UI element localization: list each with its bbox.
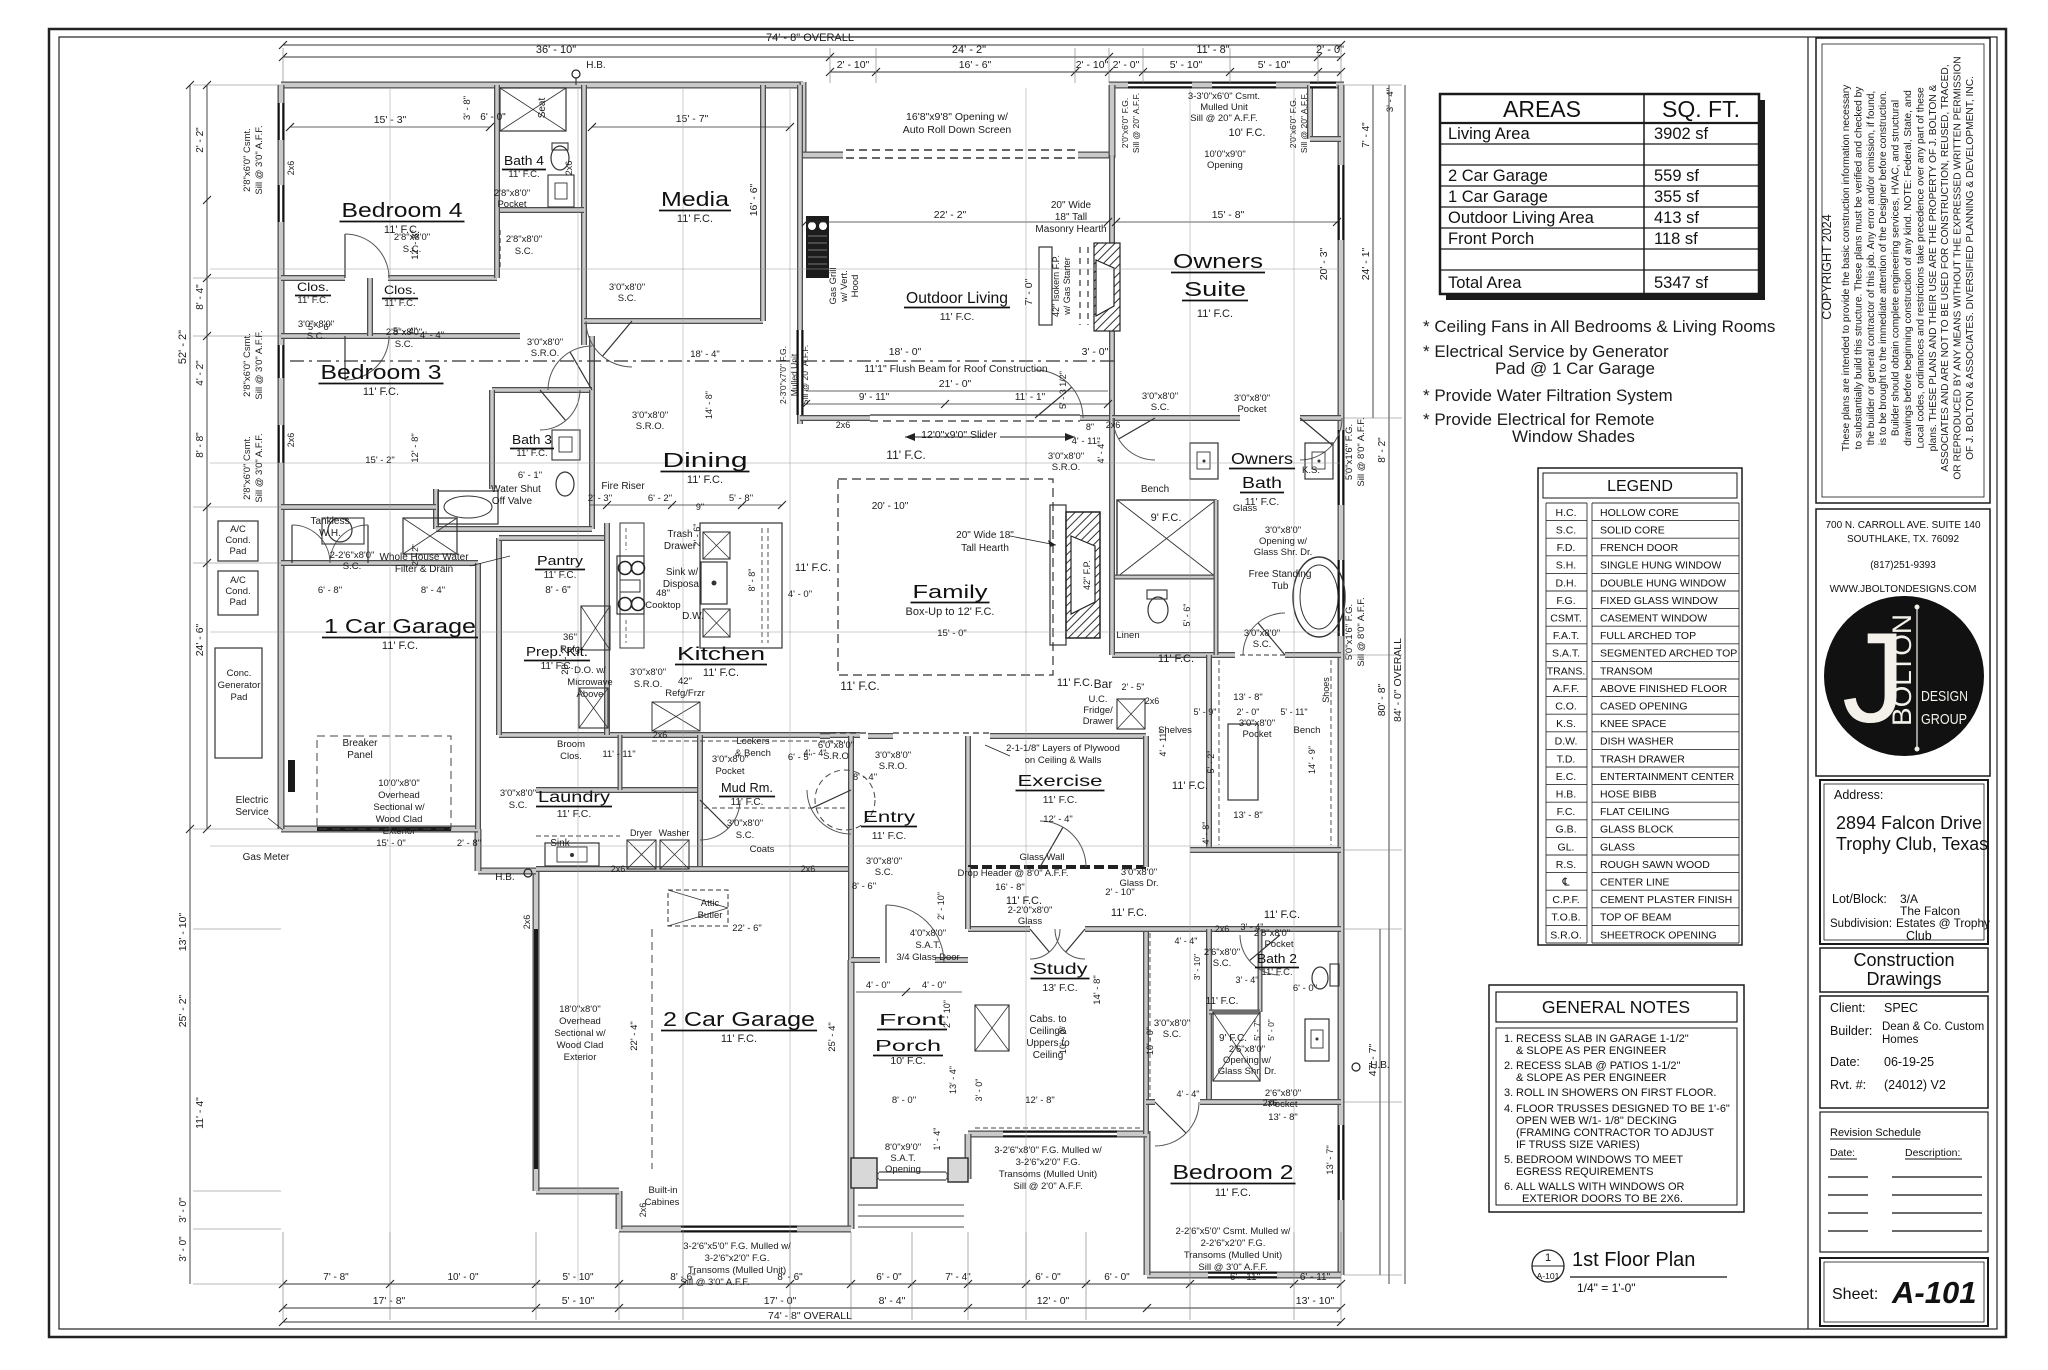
kitchen dashed uppers: [652, 740, 845, 742]
svg-text:Sheet:: Sheet:: [1832, 1286, 1878, 1303]
wall: exercise east: [1143, 736, 1149, 867]
svg-text:CASED OPENING: CASED OPENING: [1600, 701, 1688, 713]
svg-text:22' - 2": 22' - 2": [934, 209, 967, 221]
svg-text:3-2'6"x5'0" F.G. Mulled w/: 3-2'6"x5'0" F.G. Mulled w/: [683, 1241, 791, 1252]
svg-text:OPEN WEB W/1- 1/8" DECKING: OPEN WEB W/1- 1/8" DECKING: [1516, 1115, 1677, 1127]
dim: 22-2 outdoor: [806, 221, 1108, 223]
svg-text:Broom: Broom: [557, 739, 585, 750]
fixture: bath3 toilet: [556, 472, 574, 496]
svg-text:Exterior: Exterior: [564, 1052, 597, 1063]
svg-text:A/C: A/C: [230, 524, 246, 535]
window: garage bottom: [681, 1226, 797, 1233]
svg-text:Mulled Unit: Mulled Unit: [789, 353, 799, 396]
svg-text:Pad: Pad: [230, 597, 247, 608]
svg-text:22' - 6": 22' - 6": [732, 923, 761, 934]
svg-text:Transoms (Mulled Unit): Transoms (Mulled Unit): [1184, 1250, 1282, 1261]
svg-text:Sill @ 20" A.F.F.: Sill @ 20" A.F.F.: [1131, 93, 1141, 153]
exterior wall: bedroom2 bottom: [1147, 1272, 1341, 1279]
svg-text:Sill @ 20" A.F.F.: Sill @ 20" A.F.F.: [1299, 93, 1309, 153]
construction drawings box: [1820, 948, 1988, 992]
svg-text:COPYRIGHT 2024: COPYRIGHT 2024: [1820, 214, 1834, 319]
svg-text:Transoms (Mulled Unit): Transoms (Mulled Unit): [688, 1265, 786, 1276]
exterior wall: garage bottom step: [616, 1191, 623, 1229]
1st floor plan title: [1532, 1250, 1564, 1282]
svg-text:Sectional w/: Sectional w/: [373, 802, 425, 813]
title column separator: [1807, 37, 1809, 1329]
svg-text:Club: Club: [1906, 929, 1932, 943]
svg-text:3'0"x8'0": 3'0"x8'0": [527, 337, 563, 348]
svg-text:5' - 9": 5' - 9": [1194, 707, 1217, 717]
window: media wall west of outdoor living: [797, 330, 804, 415]
svg-text:Pad: Pad: [231, 692, 248, 703]
svg-text:4.: 4.: [1504, 1103, 1513, 1115]
svg-text:SEGMENTED ARCHED TOP: SEGMENTED ARCHED TOP: [1600, 648, 1737, 660]
top extension lines: [282, 48, 284, 83]
svg-text:* Provide Water Filtration Sys: * Provide Water Filtration System: [1423, 386, 1673, 405]
svg-text:drawings before beginning cons: drawings before beginning construction o…: [1903, 90, 1914, 446]
svg-text:Sink w/: Sink w/: [666, 567, 698, 578]
window: bedroom4 left x2: [278, 103, 285, 140]
svg-text:w/ Vert.: w/ Vert.: [839, 270, 850, 303]
svg-text:11' F.C.: 11' F.C.: [544, 570, 577, 581]
door: wh room double doors: [291, 525, 293, 563]
svg-text:on Ceiling & Walls: on Ceiling & Walls: [1025, 755, 1102, 766]
svg-text:Bath 2: Bath 2: [1257, 951, 1297, 966]
wall: 1-car garage right: [475, 563, 481, 829]
wall: hall/entry west: [848, 736, 854, 960]
fixture: bath2 vanity: [1305, 1019, 1329, 1061]
svg-text:CENTER LINE: CENTER LINE: [1600, 877, 1669, 889]
svg-text:80' - 8": 80' - 8": [1376, 683, 1388, 716]
svg-text:Service: Service: [235, 807, 269, 818]
svg-text:12' - 0": 12' - 0": [1037, 1295, 1070, 1307]
wall: broom closet: [618, 735, 623, 790]
svg-text:is to be brought to the immedi: is to be brought to the immediate attent…: [1878, 91, 1889, 446]
svg-text:GL.: GL.: [1558, 841, 1575, 853]
exterior wall: study bottom: [968, 1131, 1147, 1138]
J Bolton logo: [1824, 596, 1984, 756]
svg-text:Filter & Drain: Filter & Drain: [395, 564, 453, 575]
exterior wall: garage east/porch join: [848, 1176, 855, 1229]
svg-text:2' - 10": 2' - 10": [1105, 887, 1134, 898]
exterior wall: 1-car garage bottom: [281, 826, 478, 833]
dim: 21-0 row: [806, 390, 1108, 392]
svg-text:Builder should obtain complete: Builder should obtain complete engineeri…: [1891, 100, 1902, 436]
svg-text:3' - 10": 3' - 10": [1192, 954, 1202, 980]
wall: owners suite west: [1109, 155, 1115, 418]
svg-text:DOUBLE HUNG WINDOW: DOUBLE HUNG WINDOW: [1600, 577, 1726, 589]
svg-text:SINGLE HUNG WINDOW: SINGLE HUNG WINDOW: [1600, 560, 1721, 572]
svg-text:2' - 10": 2' - 10": [936, 892, 946, 920]
svg-text:S.C.: S.C.: [515, 246, 533, 257]
svg-text:3-2'6"x2'0" F.G.: 3-2'6"x2'0" F.G.: [705, 1253, 770, 1264]
door: owners suite entry: [1035, 387, 1072, 418]
svg-text:S.C.: S.C.: [395, 339, 413, 350]
svg-text:Electric: Electric: [236, 795, 269, 806]
svg-text:Builder:: Builder:: [1830, 1024, 1872, 1038]
svg-text:Sink: Sink: [550, 838, 570, 849]
svg-text:2' - 10": 2' - 10": [837, 59, 870, 71]
svg-text:Tall Hearth: Tall Hearth: [961, 543, 1009, 554]
svg-text:5'0"x1'6" F.G.: 5'0"x1'6" F.G.: [1344, 604, 1355, 660]
svg-text:Conc.: Conc.: [227, 668, 252, 679]
svg-text:5' - 10": 5' - 10": [1258, 59, 1291, 71]
svg-text:25' - 4": 25' - 4": [827, 1022, 838, 1051]
svg-text:Dryer: Dryer: [630, 828, 652, 838]
svg-text:11' F.C.: 11' F.C.: [795, 562, 831, 574]
svg-text:11' F.C.: 11' F.C.: [687, 474, 723, 486]
svg-text:Tub: Tub: [1272, 581, 1289, 592]
svg-text:Overhead: Overhead: [559, 1016, 601, 1027]
svg-text:Revision Schedule: Revision Schedule: [1830, 1127, 1921, 1139]
svg-text:SPEC: SPEC: [1884, 1001, 1918, 1015]
svg-text:H.B.: H.B.: [1370, 1060, 1389, 1071]
svg-text:9' - 11": 9' - 11": [859, 392, 890, 403]
svg-text:2' - 2": 2' - 2": [195, 127, 206, 153]
svg-text:F.C.: F.C.: [1557, 806, 1576, 818]
wall: owners closet west: [1206, 655, 1212, 850]
door: glass dr exercise: [1040, 827, 1063, 867]
svg-text:Total Area: Total Area: [1448, 274, 1522, 292]
svg-text:12' - 8": 12' - 8": [410, 433, 421, 462]
svg-text:Pantry: Pantry: [537, 553, 584, 568]
svg-text:2x6: 2x6: [286, 433, 296, 448]
svg-text:F.A.T.: F.A.T.: [1553, 630, 1579, 642]
svg-text:3'0"x8'0": 3'0"x8'0": [1121, 867, 1157, 878]
svg-text:Mud Rm.: Mud Rm.: [721, 780, 773, 795]
svg-text:A/C: A/C: [230, 575, 246, 586]
svg-text:559 sf: 559 sf: [1654, 167, 1699, 185]
svg-text:6.: 6.: [1504, 1181, 1513, 1193]
wall: media right: [760, 85, 766, 321]
svg-text:7' - 4": 7' - 4": [1361, 122, 1372, 148]
svg-text:12'0"x9'0" Slider: 12'0"x9'0" Slider: [921, 429, 997, 441]
svg-text:S.C.: S.C.: [875, 867, 893, 878]
svg-text:11' F.C.: 11' F.C.: [508, 169, 539, 180]
svg-text:K.S.: K.S.: [1556, 718, 1576, 730]
svg-text:2-1-1/8" Layers of Plywood: 2-1-1/8" Layers of Plywood: [1006, 743, 1120, 754]
wall: study top: [968, 926, 1030, 932]
svg-text:18" Tall: 18" Tall: [1055, 212, 1087, 223]
svg-text:S.C.: S.C.: [343, 561, 361, 572]
dim: 15-7 media: [592, 126, 790, 128]
svg-text:14' - 8": 14' - 8": [704, 391, 714, 419]
svg-text:Wood Clad: Wood Clad: [376, 814, 423, 825]
svg-text:2.: 2.: [1504, 1060, 1513, 1072]
svg-text:AREAS: AREAS: [1503, 96, 1581, 122]
right dim column: [1388, 85, 1390, 1284]
bottom dim row3 overall: [283, 1321, 1341, 1323]
svg-text:Front Porch: Front Porch: [1448, 230, 1534, 248]
svg-text:S.R.O.: S.R.O.: [879, 761, 908, 772]
svg-text:5' - 6": 5' - 6": [1182, 604, 1192, 627]
svg-text:Free Standing: Free Standing: [1249, 569, 1312, 580]
svg-text:Estates @ Trophy: Estates @ Trophy: [1896, 916, 1990, 930]
svg-text:3'0"x8'0": 3'0"x8'0": [1142, 391, 1178, 402]
svg-text:Panel: Panel: [347, 750, 373, 761]
svg-text:20' - 3": 20' - 3": [1318, 247, 1330, 280]
client box: [1820, 996, 1988, 1108]
wall: exercise glass south: [968, 865, 1146, 869]
svg-text:FULL ARCHED TOP: FULL ARCHED TOP: [1600, 630, 1696, 642]
svg-text:Bath 3: Bath 3: [512, 432, 552, 447]
svg-text:OR REPRODUCED BY ANY MEANS WIT: OR REPRODUCED BY ANY MEANS WITHOUT THE E…: [1953, 56, 1964, 479]
svg-text:Rvt. #:: Rvt. #:: [1830, 1078, 1866, 1092]
svg-text:2x6: 2x6: [611, 864, 626, 874]
svg-text:11' F.C.: 11' F.C.: [1111, 907, 1147, 919]
svg-text:3'0"x8'0": 3'0"x8'0": [1265, 525, 1301, 536]
wall: bath3 walls: [492, 387, 592, 393]
svg-text:Microwave: Microwave: [567, 677, 612, 688]
fixture: bath3 tub: [438, 491, 498, 524]
fixture: dryer washer: [627, 840, 656, 869]
wall: study east/exercise hall: [965, 867, 971, 929]
wall: exercise west: [965, 736, 971, 867]
door: bath2 door: [1249, 935, 1280, 961]
svg-text:OF J. BOLTON & ASSOCIATES. DIV: OF J. BOLTON & ASSOCIATES. DIVERSIFIED P…: [1965, 76, 1976, 460]
svg-text:16' - 6": 16' - 6": [959, 59, 992, 71]
svg-text:3/4 Glass Door: 3/4 Glass Door: [896, 952, 959, 963]
svg-text:11' F.C.: 11' F.C.: [731, 797, 764, 808]
svg-text:Mulled Unit: Mulled Unit: [1200, 102, 1248, 113]
svg-text:2x6: 2x6: [1145, 696, 1160, 706]
svg-text:& SLOPE AS PER ENGINEER: & SLOPE AS PER ENGINEER: [1516, 1072, 1666, 1084]
wall: pantry/prep west: [496, 538, 502, 735]
window: owners suite right: [1338, 165, 1345, 240]
svg-text:5347 sf: 5347 sf: [1654, 274, 1709, 292]
fixture: fridge 36: [581, 606, 610, 650]
svg-text:Pocket: Pocket: [1264, 939, 1293, 950]
svg-text:S.C.: S.C.: [1151, 402, 1169, 413]
door: hall to bed wing: [570, 352, 592, 390]
svg-text:1/4" = 1'-0": 1/4" = 1'-0": [1577, 1281, 1636, 1295]
svg-text:2x6: 2x6: [1215, 924, 1230, 934]
svg-text:WWW.JBOLTONDESIGNS.COM: WWW.JBOLTONDESIGNS.COM: [1830, 584, 1977, 595]
svg-text:42" F.P.: 42" F.P.: [1082, 560, 1092, 590]
svg-text:4' - 0": 4' - 0": [922, 980, 946, 991]
svg-text:2' - 0": 2' - 0": [1316, 44, 1344, 56]
svg-text:TRASH DRAWER: TRASH DRAWER: [1600, 753, 1685, 765]
svg-text:D.H.: D.H.: [1556, 577, 1577, 589]
svg-text:S.C.: S.C.: [1556, 525, 1576, 537]
svg-text:S.R.O: S.R.O: [823, 751, 849, 762]
svg-text:Lockers: Lockers: [736, 736, 770, 747]
svg-text:2 Car Garage: 2 Car Garage: [1448, 167, 1548, 185]
svg-text:5'0"x1'6" F.G.: 5'0"x1'6" F.G.: [1344, 424, 1355, 480]
wall: bath4 right / media left: [581, 85, 587, 345]
svg-text:3' - 0": 3' - 0": [178, 1236, 189, 1262]
svg-text:Pocket: Pocket: [1268, 1099, 1297, 1110]
svg-text:Pocket: Pocket: [497, 199, 526, 210]
wall: bath2 partition: [1206, 929, 1212, 1102]
svg-text:ALL WALLS WITH WINDOWS OR: ALL WALLS WITH WINDOWS OR: [1516, 1181, 1685, 1193]
svg-text:FIXED GLASS WINDOW: FIXED GLASS WINDOW: [1600, 595, 1718, 607]
svg-text:Bath 4: Bath 4: [504, 153, 544, 168]
svg-text:13' - 4": 13' - 4": [948, 1066, 958, 1094]
svg-text:11'1" Flush Beam for Roof Cons: 11'1" Flush Beam for Roof Construction: [864, 363, 1048, 375]
window: owners bath right windows: [1338, 430, 1345, 505]
svg-text:7' - 0": 7' - 0": [1023, 278, 1035, 305]
svg-text:5' - 10": 5' - 10": [1170, 59, 1203, 71]
svg-text:DISH WASHER: DISH WASHER: [1600, 736, 1674, 748]
svg-text:H.B.: H.B.: [495, 872, 514, 883]
svg-text:2'6"x8'0": 2'6"x8'0": [1229, 1044, 1265, 1055]
wall: mud west: [697, 735, 703, 869]
fixture: kitchen sink: [701, 562, 727, 604]
svg-text:5.: 5.: [1504, 1154, 1513, 1166]
svg-text:11' F.C.: 11' F.C.: [557, 808, 592, 820]
svg-text:3'0"x8'0": 3'0"x8'0": [712, 754, 748, 765]
exterior wall: right: [1338, 85, 1345, 1275]
svg-text:These plans are intended to pr: These plans are intended to provide the …: [1841, 84, 1852, 451]
svg-text:Sill @ 3'0" A.F.F.: Sill @ 3'0" A.F.F.: [254, 433, 265, 502]
svg-text:Fridge/: Fridge/: [1083, 705, 1113, 716]
svg-text:1' - 4": 1' - 4": [932, 1128, 942, 1151]
svg-text:Laundry: Laundry: [538, 789, 610, 806]
svg-text:CSMT.: CSMT.: [1550, 613, 1582, 625]
svg-text:21' - 0": 21' - 0": [939, 378, 972, 390]
svg-text:4' - 4": 4' - 4": [804, 748, 827, 758]
svg-text:1: 1: [1545, 1252, 1551, 1264]
svg-text:Built-in: Built-in: [648, 1185, 677, 1196]
svg-text:ROLL IN SHOWERS ON FIRST FLOOR: ROLL IN SHOWERS ON FIRST FLOOR.: [1516, 1087, 1716, 1099]
svg-text:3'0"x8'0": 3'0"x8'0": [1234, 393, 1270, 404]
svg-text:Sill @ 20" A.F.F.: Sill @ 20" A.F.F.: [1190, 113, 1257, 124]
GENERAL NOTES box: [1489, 985, 1744, 1212]
wall: entry/exercise north (family south): [820, 733, 830, 739]
svg-text:Date:: Date:: [1830, 1055, 1860, 1069]
svg-text:TRANS.: TRANS.: [1547, 665, 1586, 677]
svg-text:Trophy Club, Texas: Trophy Club, Texas: [1836, 834, 1988, 854]
svg-text:U.C.: U.C.: [1089, 694, 1108, 705]
fixture: wh shower: [403, 518, 457, 554]
svg-text:8'0"x9'0": 8'0"x9'0": [885, 1142, 921, 1153]
door: laundry: [811, 790, 851, 809]
svg-text:6' - 0": 6' - 0": [1104, 1272, 1130, 1283]
wall: bath2 block top: [1146, 926, 1341, 932]
fixture: AC pads: [218, 521, 258, 561]
H.B. hose bibb top: [572, 70, 580, 78]
svg-text:17' - 8": 17' - 8": [373, 1295, 406, 1307]
svg-text:10' F.C.: 10' F.C.: [1229, 127, 1266, 139]
svg-text:Bench: Bench: [1294, 725, 1321, 736]
svg-text:KNEE SPACE: KNEE SPACE: [1600, 718, 1666, 730]
svg-text:2x6: 2x6: [286, 161, 296, 176]
window: bedroom3 left x2: [278, 345, 285, 378]
svg-text:15' - 7": 15' - 7": [676, 113, 709, 125]
svg-text:4' - 11": 4' - 11": [1158, 729, 1168, 756]
svg-text:Drawings: Drawings: [1866, 969, 1941, 989]
fixture: attic butler: [668, 890, 728, 926]
garage overhead door (2 car): [533, 926, 540, 1191]
exterior wall: outdoor living top blocks: [800, 82, 807, 158]
fixture: cooktop: [617, 556, 644, 614]
svg-text:22' - 4": 22' - 4": [629, 1021, 640, 1050]
svg-text:Hood: Hood: [850, 275, 861, 298]
svg-text:FLOOR TRUSSES DESIGNED TO BE 1: FLOOR TRUSSES DESIGNED TO BE 1'-6": [1516, 1103, 1730, 1115]
svg-text:Attic: Attic: [701, 898, 720, 909]
svg-text:Drop Header @ 8'0" A.F.F.: Drop Header @ 8'0" A.F.F.: [958, 868, 1069, 879]
svg-text:TOP OF BEAM: TOP OF BEAM: [1600, 912, 1671, 924]
svg-text:3-3'0"x6'0" Csmt.: 3-3'0"x6'0" Csmt.: [1188, 91, 1260, 102]
long crossing extension lines: [389, 88, 391, 1281]
svg-text:H.B.: H.B.: [1556, 789, 1576, 801]
door: bedroom3: [344, 336, 346, 380]
svg-text:2'8"x8'0": 2'8"x8'0": [506, 234, 542, 245]
svg-text:Cond.: Cond.: [225, 586, 250, 597]
svg-text:16' - 8": 16' - 8": [995, 882, 1024, 893]
svg-text:S.C.: S.C.: [618, 293, 636, 304]
svg-text:2'6"x8'0": 2'6"x8'0": [1204, 947, 1240, 958]
svg-text:Sill @ 3'0" A.F.F.: Sill @ 3'0" A.F.F.: [254, 125, 265, 194]
svg-text:Exercise: Exercise: [1018, 773, 1103, 790]
svg-text:12' - 8": 12' - 8": [410, 230, 421, 259]
svg-text:SHEETROCK OPENING: SHEETROCK OPENING: [1600, 929, 1717, 941]
svg-text:2' - 0": 2' - 0": [1237, 707, 1260, 717]
svg-text:* Ceiling Fans in All Bedrooms: * Ceiling Fans in All Bedrooms & Living …: [1423, 317, 1775, 336]
window: bedroom2 bottom: [1208, 1272, 1277, 1279]
svg-text:Bath: Bath: [1242, 475, 1282, 492]
svg-text:BOLTON: BOLTON: [1887, 614, 1917, 726]
exterior wall: porch bottom: [851, 1173, 879, 1180]
svg-text:15' - 8": 15' - 8": [1212, 209, 1245, 221]
svg-text:CASEMENT WINDOW: CASEMENT WINDOW: [1600, 613, 1707, 625]
svg-text:4' - 8": 4' - 8": [1201, 822, 1211, 845]
svg-text:W.H.: W.H.: [319, 528, 341, 539]
svg-text:Dining: Dining: [663, 450, 748, 472]
svg-text:7' - 8": 7' - 8": [323, 1272, 349, 1283]
svg-text:D.O. w/: D.O. w/: [574, 665, 606, 676]
svg-text:10'0"x8'0": 10'0"x8'0": [378, 778, 420, 789]
copyright box: [1816, 38, 1990, 503]
fixture: 42 refg/frzr: [652, 702, 700, 731]
svg-text:84' - 0" OVERALL: 84' - 0" OVERALL: [1392, 638, 1404, 722]
fixture: study cabinets: [975, 1005, 1009, 1051]
svg-text:11' F.C.: 11' F.C.: [382, 640, 418, 652]
svg-text:Clos.: Clos.: [297, 280, 329, 294]
owners closet dashed shelves: [1218, 660, 1220, 845]
svg-text:GENERAL NOTES: GENERAL NOTES: [1542, 997, 1690, 1017]
svg-text:11' - 8": 11' - 8": [1196, 44, 1229, 56]
wall: closets bottom / bedroom3 top: [281, 333, 520, 339]
svg-text:13' F.C.: 13' F.C.: [1042, 982, 1077, 994]
svg-text:10' - 0": 10' - 0": [1058, 1026, 1068, 1054]
laundry dashed counters: [536, 835, 620, 837]
svg-text:Living Area: Living Area: [1448, 125, 1530, 143]
fixture: bath2 linen shower: [1213, 1012, 1260, 1081]
svg-text:11' F.C.: 11' F.C.: [363, 386, 399, 398]
svg-text:F.G.: F.G.: [1556, 595, 1575, 607]
svg-text:C.P.F.: C.P.F.: [1552, 894, 1579, 906]
svg-text:Exterior: Exterior: [383, 826, 416, 837]
exterior wall: left: [278, 85, 285, 829]
fixture: laundry sink: [545, 843, 599, 866]
svg-text:Pocket: Pocket: [1237, 404, 1266, 415]
svg-text:11' F.C.: 11' F.C.: [940, 311, 975, 323]
AREAS table shadow: [1446, 100, 1765, 300]
svg-text:14' - 8": 14' - 8": [1092, 975, 1103, 1004]
fixture: breaker panel: [288, 760, 295, 792]
svg-text:13' - 7": 13' - 7": [1325, 1145, 1336, 1174]
svg-text:2x6: 2x6: [1106, 420, 1121, 430]
svg-text:EXTERIOR DOORS TO BE 2X6.: EXTERIOR DOORS TO BE 2X6.: [1522, 1193, 1683, 1205]
wall: bedroom4 right / bath4 left: [494, 85, 500, 278]
wall: bath3 / wh room bottom: [436, 526, 592, 532]
svg-text:74' - 8" OVERALL: 74' - 8" OVERALL: [768, 1310, 852, 1322]
svg-text:13' - 8": 13' - 8": [1233, 810, 1262, 821]
svg-text:13' - 8": 13' - 8": [1268, 1112, 1297, 1123]
svg-text:Owners: Owners: [1231, 451, 1293, 468]
